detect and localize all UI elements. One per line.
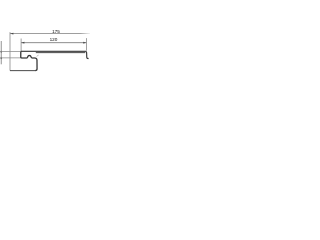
extension line y=57.9 <box>0 57 21 59</box>
fade of dim 175 at right edge <box>80 33 90 35</box>
profile right end hook <box>86 52 89 59</box>
faint inner hem wisp near leg <box>37 55 39 57</box>
profile bottom flange <box>10 70 35 72</box>
arrow right of dim 120 <box>83 42 86 44</box>
profile left box with rib and bottom flange <box>21 51 37 70</box>
svg-text:175: 175 <box>52 29 60 34</box>
upper arrow knot of left vertical dimension <box>0 51 2 53</box>
profile panel top surface <box>21 50 86 52</box>
arrow left of dim 120 <box>21 42 24 44</box>
extension line x=21 <box>20 39 22 51</box>
extension line left x=10 <box>9 32 11 71</box>
dimension line 120 <box>21 42 86 44</box>
dimension line 175 <box>10 33 90 35</box>
lower arrow knot of left vertical dimension <box>0 57 2 59</box>
extension line x=86.5 <box>86 38 88 51</box>
arrow left of dim 175 <box>10 33 13 35</box>
profile panel bottom surface <box>36 52 86 54</box>
svg-text:120: 120 <box>50 37 58 42</box>
vertical dimension line at left edge <box>0 41 2 64</box>
extension line y=51.6 <box>0 51 21 53</box>
